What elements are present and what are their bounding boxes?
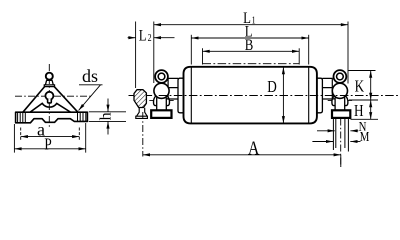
bearing right: base plate [332, 110, 350, 118]
ds underline [79, 84, 103, 86]
dimension a line [21, 136, 80, 138]
dimension a extension lines (dashed) [21, 128, 80, 141]
H reference bottom line [351, 118, 379, 120]
bolt neck [45, 80, 53, 85]
dim B extension right [298, 48, 300, 64]
bearing left: base plate [151, 110, 171, 118]
bracket anchor centerline [142, 112, 144, 157]
dim H line [370, 100, 372, 119]
bearing left: column [157, 98, 167, 111]
dim L extension left [190, 35, 192, 65]
dim L1 line [154, 24, 348, 26]
svg-text:A: A [248, 137, 260, 159]
drum end disc left [190, 67, 192, 123]
dim B line [203, 50, 300, 52]
centerline vertical [48, 64, 50, 129]
bracket foot [136, 108, 148, 119]
svg-text:M: M [360, 129, 370, 144]
keyhole circle [45, 92, 53, 100]
drum end disc right [308, 67, 310, 123]
dim D line [282, 67, 284, 123]
dim B extension left [202, 48, 204, 64]
shaft right [332, 92, 334, 99]
centerline horizontal [15, 95, 91, 97]
shaft clamp block right [322, 78, 332, 99]
K/H reference middle line [349, 99, 378, 101]
main axis centerline [129, 95, 399, 97]
drum shell [184, 67, 317, 124]
hub boss right [317, 78, 323, 113]
bearing left: legs [153, 96, 169, 106]
dim L1 extension right [347, 22, 349, 84]
dim A line [143, 154, 341, 156]
svg-text:2: 2 [148, 32, 152, 43]
dimension h bottom line [89, 120, 126, 122]
anchor bolt lines below right plate [333, 119, 348, 152]
dim L1 extension left [153, 22, 155, 84]
base plate outline [16, 112, 88, 123]
svg-text:L: L [139, 27, 147, 45]
dim M arrows [312, 141, 333, 143]
bearing left: eye inner circle [158, 73, 165, 80]
base plate left slot band [18, 112, 26, 123]
svg-text:h: h [97, 112, 114, 120]
dim N arrows [317, 130, 335, 132]
bearing right: eye outer circle [334, 70, 347, 83]
bearing right: column [335, 98, 345, 111]
K reference top line [349, 70, 376, 72]
dim A extension right [340, 155, 342, 167]
svg-text:D: D [267, 79, 277, 97]
svg-text:P: P [44, 136, 51, 154]
bearing left: eye outer circle [155, 70, 168, 83]
ds leader [79, 85, 101, 111]
shaft clamp block left [168, 78, 178, 99]
keyhole slot [48, 99, 52, 103]
triangle outer right edge [54, 87, 78, 113]
bearing left: side ticks [149, 99, 173, 101]
dimension h arrows [107, 99, 109, 112]
dim L extension right [308, 35, 310, 65]
svg-text:ds: ds [82, 66, 98, 86]
svg-text:H: H [354, 103, 364, 121]
dimension P line [14, 148, 85, 150]
bearing right: side ticks [328, 99, 352, 101]
shaft left [166, 92, 168, 99]
inner web cutout [30, 103, 70, 112]
svg-text:K: K [355, 78, 365, 96]
bolt cap shoulder [44, 85, 54, 87]
dim L2 arrows [128, 37, 136, 39]
svg-text:B: B [245, 37, 254, 55]
hub boss left [178, 78, 184, 113]
bearing right: housing ball [332, 83, 347, 98]
bearing left: housing ball [154, 83, 169, 98]
bolt circle [46, 73, 53, 80]
support bracket (hatched, sectioned) [134, 90, 146, 108]
base plate right slot band [78, 112, 86, 121]
bearing right: legs [332, 96, 348, 106]
dimension P extension lines [14, 123, 85, 153]
dim L2 extension left [135, 22, 137, 89]
dim L line [191, 37, 308, 39]
triangle outer left edge [23, 87, 45, 113]
bearing right: eye inner circle [337, 73, 344, 80]
anchor bolt centerline right [340, 119, 342, 168]
dim K line [370, 71, 372, 101]
dimension h top line [89, 111, 126, 113]
belt width phantom line B [203, 63, 300, 65]
